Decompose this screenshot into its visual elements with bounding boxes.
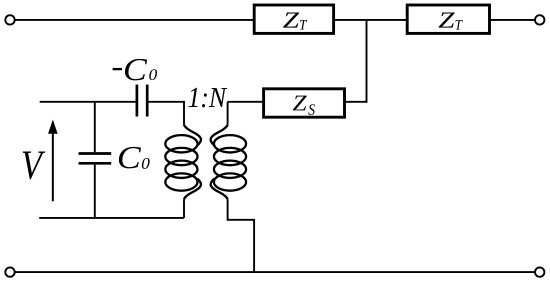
terminal bottom-right xyxy=(535,267,544,276)
wire bottom rail xyxy=(15,271,535,273)
arrow V direction xyxy=(48,120,58,202)
capacitor -C0 xyxy=(137,85,147,117)
wire ZS to transformer secondary xyxy=(228,101,264,103)
impedance ZT2 box xyxy=(407,5,489,33)
wire top rail left xyxy=(15,19,254,21)
wire secondary bottom to ground rail xyxy=(228,199,255,272)
label 1:N turns ratio xyxy=(188,88,227,108)
label ZT2 xyxy=(439,13,463,30)
label ZT1 xyxy=(283,13,307,30)
label V xyxy=(23,152,46,180)
impedance ZS box xyxy=(264,89,345,117)
wire V port bottom xyxy=(39,217,184,219)
terminal top-left xyxy=(5,15,14,24)
transformer secondary winding xyxy=(211,125,246,199)
wire primary top lead xyxy=(227,102,229,125)
transformer primary winding xyxy=(165,125,201,199)
wire junction vertical xyxy=(345,20,367,102)
wire C0 branch top xyxy=(94,102,96,152)
terminal bottom-left xyxy=(5,267,14,276)
wire V port top xyxy=(40,101,136,103)
wire primary bottom lead xyxy=(183,199,185,218)
wire C0 branch bottom xyxy=(94,165,96,218)
label ZS xyxy=(293,96,315,115)
wire top rail middle xyxy=(334,19,408,21)
impedance ZT1 box xyxy=(254,5,333,33)
capacitor C0 xyxy=(79,154,112,164)
wire -C0 to primary xyxy=(149,102,185,125)
terminal top-right xyxy=(535,15,544,24)
label C0 xyxy=(119,147,150,169)
label -C0 xyxy=(113,59,157,81)
wire top rail right xyxy=(490,19,536,21)
